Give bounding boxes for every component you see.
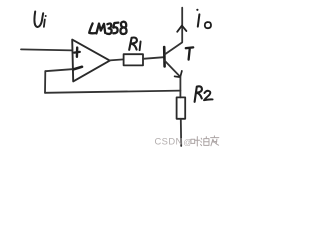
op-amp - input marker <box>73 67 82 70</box>
emitter arrowhead <box>175 71 182 77</box>
transistor T label <box>186 47 193 59</box>
wire R1 to base <box>143 57 164 59</box>
wire emitter down to R2 <box>179 77 181 97</box>
op-amp + input marker <box>74 48 80 57</box>
op-amp U1 LM358 label <box>89 22 126 34</box>
svg-text:CSDN: CSDN <box>155 136 183 147</box>
transistor T base bar <box>163 47 166 66</box>
watermark CJK char 2 <box>201 137 209 146</box>
transistor T collector stroke <box>165 8 182 55</box>
watermark CJK char 3 <box>211 136 219 146</box>
node Ui label <box>34 12 46 28</box>
wire feedback vertical <box>44 71 46 93</box>
resistor R2 label <box>195 86 213 102</box>
wire feedback horizontal to R2 node <box>45 91 180 93</box>
resistor R2 body <box>177 97 186 118</box>
wire op-amp output <box>110 59 124 60</box>
wire R2 bottom <box>180 119 182 146</box>
watermark CSDN @... <box>155 136 193 148</box>
node Io label <box>196 9 211 29</box>
transistor T emitter stroke with arrow <box>165 61 181 77</box>
arrow on collector (Io direction) <box>177 26 186 32</box>
op-amp U1 triangle <box>72 40 110 82</box>
wire op-amp minus input <box>45 69 72 71</box>
wire input to op-amp + <box>21 49 72 50</box>
watermark CJK char 1 <box>191 137 200 146</box>
resistor R1 body <box>124 54 143 65</box>
resistor R1 label <box>129 38 140 51</box>
